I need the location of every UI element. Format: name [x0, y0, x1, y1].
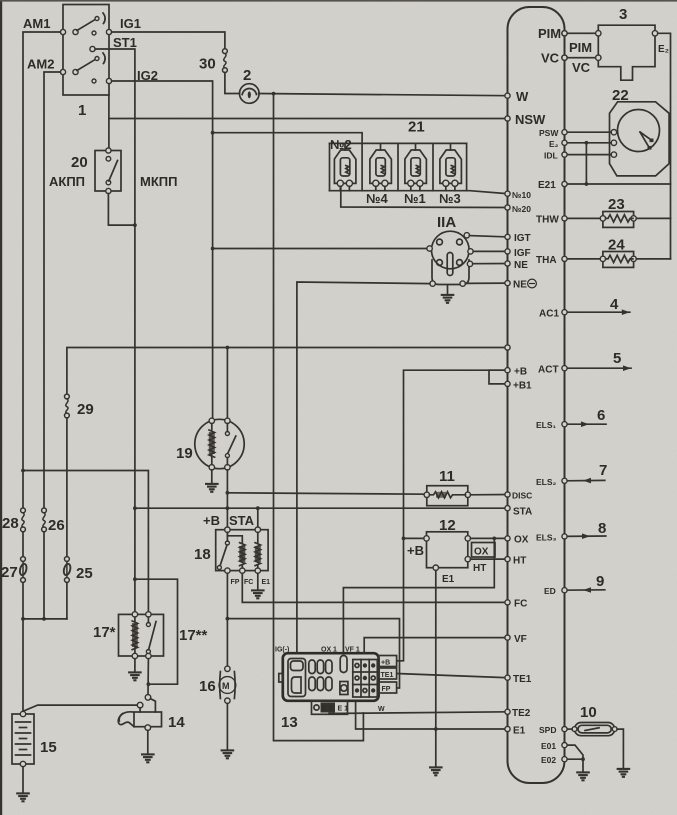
wire THA [565, 258, 601, 260]
junction STA at ST1 [133, 506, 137, 510]
wire +B from ECU to relay12 and connector [397, 370, 508, 661]
svg-text:3: 3 [619, 6, 627, 23]
wire OX test terminal to connector 13 [343, 538, 494, 653]
wire pump to ground [226, 703, 228, 750]
svg-text:VC: VC [541, 51, 560, 66]
lambda sensor 12 box [427, 532, 468, 568]
wire E21 to bus [565, 183, 671, 185]
svg-text:STA: STA [229, 513, 255, 528]
wire injector14 to ground [147, 730, 149, 754]
wire THW [565, 217, 601, 219]
svg-text:12: 12 [439, 517, 456, 534]
connector 13 right grid [353, 660, 378, 698]
svg-text:26: 26 [48, 517, 65, 534]
svg-text:10: 10 [580, 704, 597, 721]
distributor pin left [427, 246, 432, 251]
battery cells [16, 722, 31, 755]
wire ignition coil feed to distributor [213, 248, 428, 250]
svg-text:4: 4 [610, 296, 619, 313]
svg-text:THA: THA [536, 255, 557, 266]
wire IG2 right and down to relay 19 [112, 81, 213, 419]
pin ECU aux [505, 345, 510, 350]
svg-text:E 2: E 2 [322, 706, 333, 713]
svg-text:20: 20 [71, 154, 88, 171]
svg-text:ELS₁: ELS₁ [536, 420, 557, 430]
svg-text:МКПП: МКПП [140, 174, 177, 189]
svg-text:E01: E01 [541, 741, 556, 751]
svg-text:W: W [378, 706, 385, 713]
switch S20 blade [109, 161, 118, 182]
relay 18 coil 1 [227, 532, 245, 568]
throttle sensor 22 wipers [640, 132, 651, 140]
svg-text:AC1: AC1 [539, 309, 559, 320]
junction ST1 branch [133, 577, 137, 581]
wire relay19 out to relay18 +B [226, 470, 228, 528]
wire relay18 FC to ECU [242, 573, 507, 602]
junction +B to lambda heater relay [402, 537, 406, 541]
svg-text:STA: STA [513, 507, 532, 518]
wire R11 to ECU DISC [471, 494, 508, 496]
switch S20 (clutch/neutral) box [95, 151, 121, 192]
svg-text:VF 1: VF 1 [345, 647, 360, 654]
wire box1 bottom to switch 20 [108, 95, 110, 148]
scan border top [0, 0, 677, 2]
svg-text:14: 14 [168, 714, 185, 731]
wire TE1 to ECU [397, 674, 508, 678]
throttle sensor 22 body [610, 102, 670, 176]
ECU pin circles left edge [505, 93, 510, 732]
svg-text:ACT: ACT [538, 365, 559, 376]
svg-text:№1: №1 [404, 191, 426, 206]
wire E2 [565, 142, 612, 144]
wire IDL [565, 154, 612, 156]
svg-text:W: W [516, 89, 529, 104]
wire NSW from ECU to switch 20 [109, 118, 508, 120]
svg-text:IGF: IGF [514, 248, 531, 259]
junction AM1 branch [21, 469, 25, 473]
svg-text:+B: +B [203, 513, 220, 528]
ground below connector 13 [429, 767, 443, 775]
svg-text:AM2: AM2 [27, 57, 54, 72]
arrow ACT out [565, 367, 632, 369]
junction +B at relay19 line [226, 506, 230, 510]
svg-text:+B: +B [407, 543, 424, 558]
ground below relay 19 [205, 484, 219, 492]
wire battery to ground [22, 767, 24, 793]
switch S1 blade AM2-IG2 [77, 59, 96, 71]
svg-text:8: 8 [598, 520, 606, 537]
relay 17 coil [132, 617, 137, 653]
fuse F29 [65, 394, 70, 418]
wire E2 to E21 [585, 143, 587, 184]
check connector 13 body [283, 653, 379, 701]
junction coil feed [211, 247, 215, 251]
relay 18 pins [225, 527, 230, 532]
svg-text:NE: NE [513, 280, 527, 291]
svg-text:13: 13 [281, 714, 298, 731]
wire fuse26 down to battery bus [43, 532, 45, 619]
wire 24 to bus [636, 258, 670, 260]
svg-text:№3: №3 [439, 191, 461, 206]
relay 19 coil [209, 424, 215, 465]
wire fuse29 to fuse25 [66, 418, 68, 557]
battery GB15 body [12, 714, 34, 764]
wire IGF [473, 250, 507, 252]
svg-text:25: 25 [76, 565, 93, 582]
distributor ground stub [447, 285, 449, 295]
wire VF to ECU [364, 638, 507, 654]
wire fuse25 down to battery bus [66, 583, 68, 619]
wire relay19 to ground [211, 470, 213, 484]
svg-text:№4: №4 [366, 191, 388, 206]
wire NE- to ECU [465, 282, 507, 284]
wire +B main feed (ECU aux pin to fuse 29) [67, 348, 508, 394]
svg-text:AM1: AM1 [23, 16, 50, 31]
resistor element 24 [606, 255, 633, 262]
svg-text:+B1: +B1 [513, 381, 532, 392]
svg-text:18: 18 [194, 546, 211, 563]
junction E0 [581, 757, 585, 761]
svg-text:E1: E1 [513, 726, 526, 737]
injector 14 bottom pin [145, 725, 151, 731]
switch S1 blade AM1-IG1 [77, 19, 96, 31]
svg-text:7: 7 [599, 462, 607, 479]
coolant temp sensor 23 box [603, 212, 634, 228]
wire rail No20 to ECU [341, 186, 508, 208]
svg-text:5: 5 [613, 350, 621, 367]
arrow ELS3 out [565, 535, 606, 537]
junction E2/E21 [585, 141, 589, 145]
ECU pin circles right edge [562, 31, 567, 762]
ground below distributor [441, 295, 455, 303]
relay 19 pins [209, 418, 214, 423]
svg-text:IG(-): IG(-) [275, 647, 289, 654]
label box FP [379, 682, 397, 693]
svg-text:№20: №20 [512, 204, 531, 214]
label OX box [472, 543, 496, 558]
junction DISC branch [226, 491, 230, 495]
svg-text:E1: E1 [262, 579, 271, 586]
svg-text:OX: OX [514, 535, 529, 546]
svg-text:19: 19 [176, 445, 193, 462]
ground below sensor 10 [617, 769, 631, 777]
relay 18 switch [225, 541, 229, 545]
svg-text:IIA: IIA [437, 214, 456, 231]
svg-text:DISC: DISC [512, 491, 532, 501]
svg-text:E₂: E₂ [658, 44, 669, 55]
svg-text:E₂: E₂ [549, 139, 559, 149]
svg-text:№10: №10 [512, 190, 531, 200]
relay 19 switch [225, 432, 229, 436]
svg-text:27: 27 [1, 564, 18, 581]
relay K18 (circuit opening) box [216, 530, 268, 571]
main relay 19 body [195, 419, 244, 468]
wire E2 bus [658, 33, 671, 259]
connector 13 middle pills [309, 656, 348, 695]
injector cell dividers [329, 143, 331, 190]
label box +B [379, 656, 397, 667]
distributor pin IGF [468, 249, 473, 254]
arrow ED in [565, 589, 605, 591]
svg-text:SPD: SPD [539, 725, 556, 735]
svg-text:28: 28 [2, 515, 19, 532]
connector 13 bottom tab [312, 701, 348, 715]
svg-text:OX 1: OX 1 [321, 647, 337, 654]
switch S20 pins [106, 148, 111, 153]
wire AM2 left [44, 72, 60, 507]
distributor rotor slot [447, 253, 453, 276]
connector 13 left section [288, 659, 306, 697]
switch S1 pin IG2 [106, 78, 111, 83]
svg-text:FP: FP [382, 686, 391, 693]
svg-text:IDL: IDL [544, 151, 558, 161]
arrow ELS2 in [565, 479, 605, 481]
wire FP test terminal [227, 619, 399, 688]
resistor element 23 [606, 215, 633, 222]
svg-text:17*: 17* [93, 624, 116, 641]
fuse F30 [223, 49, 228, 73]
resistor R11 pins [424, 492, 429, 497]
MAP sensor 3 connector box PIM/VC [565, 33, 599, 57]
distributor pin IGT [464, 233, 469, 238]
svg-text:ELS₃: ELS₃ [536, 533, 557, 543]
svg-text:11: 11 [439, 468, 455, 485]
ground below E01/E02 [576, 772, 590, 780]
wire NE [473, 263, 508, 265]
svg-text:THW: THW [536, 215, 559, 226]
MAP sensor 3 body [598, 25, 655, 80]
arrow AC1 out [565, 311, 630, 313]
svg-text:6: 6 [597, 407, 605, 424]
svg-text:ST1: ST1 [113, 35, 137, 50]
battery bottom pin [20, 761, 25, 766]
connector 13 left latch [279, 674, 283, 683]
wire NE- to check connector IG(-) [297, 282, 430, 653]
cold start injector 14 [145, 695, 151, 701]
air temp sensor 24 box [603, 252, 634, 268]
distributor pin NE [467, 261, 472, 266]
svg-text:23: 23 [608, 196, 625, 213]
svg-text:TE1: TE1 [381, 672, 394, 679]
wire relay18 STA riser [257, 508, 259, 528]
junction OX test branch [492, 537, 496, 541]
svg-text:29: 29 [77, 401, 94, 418]
wire 10 to ground [617, 729, 623, 768]
junction ST1/switch20 [133, 223, 137, 227]
injector rail top [330, 142, 467, 144]
svg-text:1: 1 [78, 102, 86, 119]
scan border left [0, 0, 2, 815]
svg-text:TE2: TE2 [512, 708, 531, 719]
ground below relay 18 [251, 590, 265, 598]
switch S1 contact row2 [92, 79, 96, 83]
wire rail No10 to ECU [330, 191, 508, 194]
pin AM2 [60, 69, 65, 74]
label box TE1 [379, 668, 397, 679]
wire relay17 out to injector 14 [147, 659, 149, 695]
switch S1 contact AM1 [73, 29, 78, 34]
ground below battery [16, 793, 30, 801]
fuse F26 [42, 508, 47, 532]
ground below relay 17 [128, 672, 142, 680]
junction FP test branch [226, 617, 230, 621]
svg-text:IG1: IG1 [120, 16, 141, 31]
svg-text:HT: HT [513, 556, 526, 567]
fuse F28 [21, 508, 26, 532]
resistor R11 element [430, 492, 466, 498]
junction lamp/W wire [272, 92, 276, 96]
wire relay17 coil to ground [134, 659, 136, 672]
wire E01 [565, 745, 584, 759]
junction IG2 rail [211, 131, 215, 135]
junction STA at relay18 [256, 506, 260, 510]
wire 23 to bus [636, 217, 670, 219]
svg-text:NSW: NSW [515, 112, 546, 127]
wire fuse28 to fuse27 [22, 532, 24, 557]
fuse F27 [19, 557, 28, 583]
svg-text:VF: VF [514, 634, 527, 645]
wire +B1 bracket [489, 370, 508, 384]
svg-text:E 1: E 1 [338, 706, 349, 713]
connector 13 terminal dots [363, 663, 367, 667]
wire E02 [565, 759, 584, 772]
wire PSW [565, 131, 612, 133]
distributor pin NE- left [430, 281, 435, 286]
distributor cap holes [437, 239, 443, 245]
svg-text:АКПП: АКПП [49, 174, 85, 189]
svg-text:FC: FC [244, 579, 253, 586]
relay 17 pins [132, 612, 137, 617]
svg-text:+B: +B [381, 660, 390, 667]
svg-text:15: 15 [40, 739, 57, 756]
wire battery bus [23, 618, 67, 620]
speed sensor 10 capsule [575, 723, 615, 736]
svg-text:VC: VC [572, 60, 591, 75]
svg-text:M: M [222, 681, 230, 691]
junction E21 [585, 182, 589, 186]
svg-text:FP: FP [231, 579, 240, 586]
ECU U1 body [508, 7, 565, 783]
relay K17 box [119, 614, 164, 656]
switch S1 contact AM2 [73, 69, 78, 74]
wire switch20 bottom to ST1 line [108, 194, 134, 226]
pins of 3 [562, 31, 567, 36]
injector 14 body [134, 712, 162, 727]
wire lamp to ECU W [259, 94, 508, 96]
wire DISC line [227, 493, 424, 494]
switch S1 contact ST1 [90, 46, 95, 51]
wire ST1 right and down [95, 49, 135, 614]
wire 12 OX to ECU [471, 537, 508, 539]
svg-text:16: 16 [199, 678, 216, 695]
wire battery to cold start injector 14 [23, 705, 137, 711]
wire 12 HT to ECU [471, 558, 508, 560]
svg-text:2: 2 [243, 67, 251, 84]
resistor R11 box [427, 486, 468, 506]
pin AM1 [60, 29, 65, 34]
ground below pump [221, 750, 235, 758]
pins of 12 [424, 536, 429, 541]
svg-text:17**: 17** [179, 627, 208, 644]
svg-text:TE1: TE1 [513, 674, 532, 685]
svg-text:PIM: PIM [569, 40, 592, 55]
wire ST1 branch around relay (17** path) [135, 579, 178, 684]
junction E1 net [434, 727, 438, 731]
junction battery bus fuse26 [42, 617, 46, 621]
wire relay18 FP to fuel pump [226, 573, 228, 666]
wire E1 to ECU [356, 702, 508, 729]
relay 18 coil 2 [255, 532, 260, 568]
wire W to connector 13 (W riser) [274, 94, 364, 741]
wire relay18 E1 to ground [257, 573, 259, 590]
svg-text:ELS₂: ELS₂ [536, 477, 557, 487]
junction 17** path [147, 682, 151, 686]
junction main relay top [226, 346, 230, 350]
wire IG1 to fuse 30 [112, 32, 225, 49]
svg-text:HT: HT [473, 563, 486, 574]
svg-text:E02: E02 [541, 755, 556, 765]
svg-text:+B: +B [514, 367, 527, 378]
svg-text:OX: OX [474, 547, 489, 558]
svg-text:E1: E1 [442, 574, 455, 585]
switch S1 contact row1 [92, 31, 96, 35]
svg-text:ED: ED [544, 586, 556, 596]
battery top pin [20, 711, 25, 716]
distributor pin NE- right [460, 281, 465, 286]
ground below injector 14 [141, 754, 155, 762]
wire TE2 to ECU [329, 712, 508, 714]
wire 12 E1 down to E1 net [435, 570, 437, 767]
wire AM1 left [23, 32, 60, 507]
wire SPD [565, 728, 573, 730]
ignition switch S1 box [63, 5, 109, 96]
svg-text:IGT: IGT [514, 233, 531, 244]
wire STA line [135, 507, 508, 509]
pins of 22 [611, 130, 616, 135]
wire +B to 12 [404, 537, 424, 539]
svg-text:PSW: PSW [539, 128, 559, 138]
svg-text:E21: E21 [538, 180, 556, 191]
switch S1 pin IG1 [106, 29, 111, 34]
svg-text:FC: FC [514, 599, 527, 610]
arrow ELS1 out [565, 423, 607, 425]
fuse F25 [63, 557, 72, 583]
wire AM1 branch right [23, 471, 148, 615]
wire fuse27 to battery [22, 583, 24, 712]
svg-text:9: 9 [596, 573, 604, 590]
wire IGT [469, 236, 507, 237]
wire fuse30 to lamp [225, 73, 240, 94]
svg-text:PIM: PIM [538, 26, 561, 41]
wire IG2 rail to injectors [213, 133, 363, 144]
relay 17 switch [146, 623, 150, 627]
lamp H2 (check engine) [240, 84, 260, 104]
svg-text:NE: NE [514, 260, 528, 271]
svg-text:21: 21 [408, 119, 425, 136]
fuel pump M16 [225, 666, 230, 671]
junction battery bus left [21, 617, 25, 621]
distributor IIA body [432, 260, 469, 285]
wire main relay 19 top [226, 348, 228, 419]
svg-text:30: 30 [199, 56, 216, 73]
